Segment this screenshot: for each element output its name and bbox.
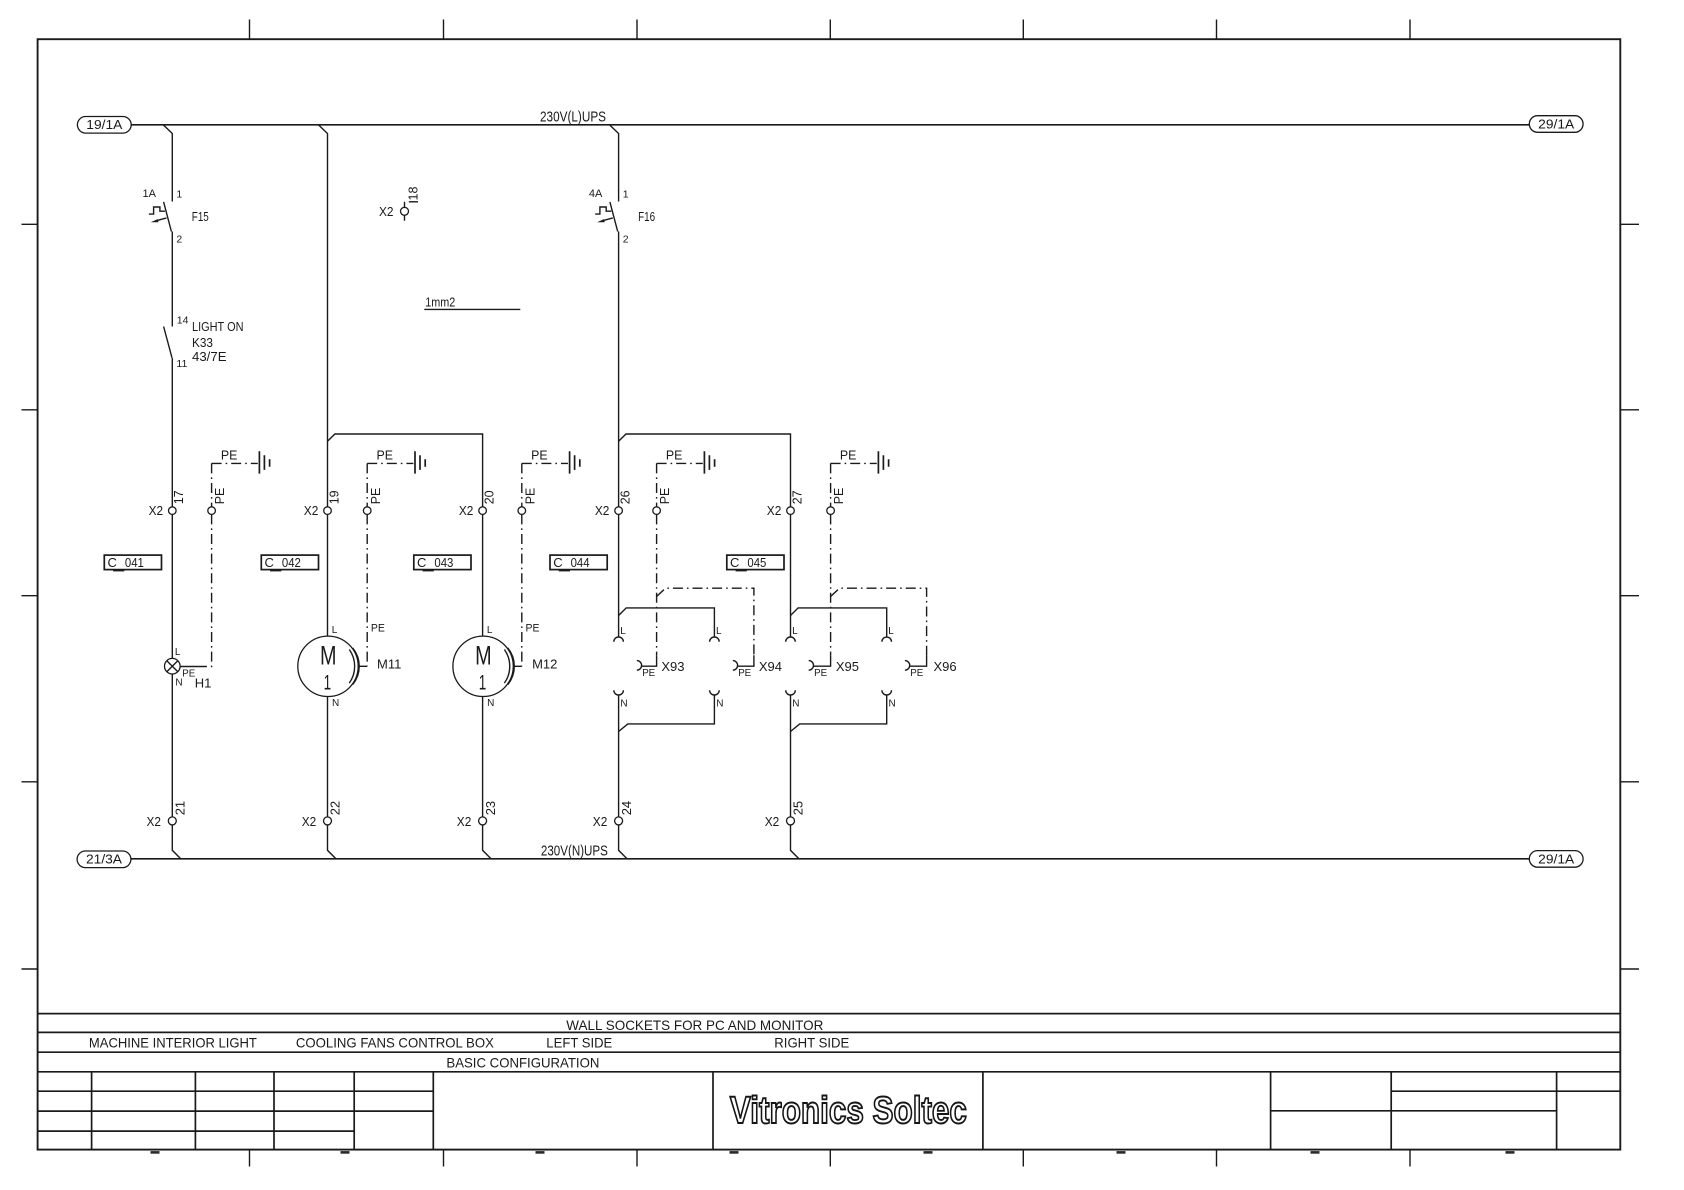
wire PE4 dash-dot to X93 PE bbox=[656, 514, 658, 655]
wire X2:25 to N bus bbox=[791, 825, 799, 859]
svg-text:M: M bbox=[475, 640, 492, 670]
svg-text:L: L bbox=[792, 626, 798, 637]
svg-text:C: C bbox=[417, 555, 426, 570]
svg-text:22: 22 bbox=[328, 801, 343, 815]
svg-text:2: 2 bbox=[176, 234, 182, 246]
wire link branch4 to branch5 bbox=[619, 434, 791, 507]
wire X93 N to X2:24 bbox=[618, 695, 620, 817]
svg-text:PE: PE bbox=[369, 488, 383, 505]
svg-text:L: L bbox=[487, 625, 493, 636]
terminal X2:21 bbox=[168, 817, 176, 825]
svg-text:X2: X2 bbox=[767, 503, 782, 518]
terminal X2:PE on dash line x=521.8 bbox=[518, 507, 526, 515]
terminal X2:20 (fan M12) bbox=[479, 507, 487, 515]
ground symbol PE4 bbox=[704, 451, 714, 473]
svg-text:N: N bbox=[716, 698, 723, 709]
svg-text:21: 21 bbox=[173, 801, 188, 815]
svg-text:17: 17 bbox=[172, 490, 186, 504]
svg-text:C: C bbox=[553, 555, 562, 570]
svg-text:18: 18 bbox=[407, 187, 421, 201]
wire X94 N join bbox=[619, 695, 715, 732]
wire PE2 stub to M11 bbox=[359, 665, 368, 667]
motor M11 bbox=[298, 636, 358, 696]
cable label C_045 bbox=[727, 555, 784, 570]
wire PE3 dash-dot to ground bbox=[522, 462, 568, 464]
svg-text:X2: X2 bbox=[765, 814, 780, 829]
wire link branch2 to branch3 bbox=[328, 434, 483, 507]
svg-text:041: 041 bbox=[125, 555, 144, 570]
wire X2:17 to H1 bbox=[171, 514, 173, 658]
svg-text:23: 23 bbox=[483, 801, 498, 815]
svg-text:19/1A: 19/1A bbox=[86, 118, 123, 132]
svg-text:29/1A: 29/1A bbox=[1538, 117, 1575, 131]
svg-text:X2: X2 bbox=[149, 503, 164, 518]
ground symbol PE3 bbox=[570, 451, 580, 473]
svg-text:1: 1 bbox=[324, 671, 332, 694]
circuit breaker F16 (4A) bbox=[610, 202, 618, 232]
wire PE3 dash-dot vertical upper bbox=[521, 463, 523, 506]
svg-text:PE: PE bbox=[840, 448, 857, 462]
wire PE3 dash-dot vertical lower bbox=[521, 514, 523, 666]
svg-text:X2: X2 bbox=[304, 503, 319, 518]
svg-text:21/3A: 21/3A bbox=[86, 853, 123, 867]
wire X2:26 to X93 L bbox=[618, 514, 620, 636]
title block right cells bbox=[1271, 1072, 1557, 1150]
svg-text:X2: X2 bbox=[457, 814, 472, 829]
svg-text:4A: 4A bbox=[589, 188, 603, 200]
svg-text:L: L bbox=[888, 626, 894, 637]
svg-text:PE: PE bbox=[182, 667, 195, 679]
cable label C_041 bbox=[104, 555, 161, 570]
svg-text:X93: X93 bbox=[661, 659, 684, 674]
svg-text:X2: X2 bbox=[379, 204, 394, 219]
svg-text:PE: PE bbox=[666, 448, 683, 462]
wire PE1 stub to H1 bbox=[180, 666, 198, 668]
switch contact K33 LIGHT ON bbox=[164, 327, 172, 358]
svg-text:PE: PE bbox=[814, 667, 827, 679]
wire X94 PE connector bbox=[738, 655, 754, 666]
svg-text:PE: PE bbox=[377, 448, 394, 462]
wire X96 N join bbox=[791, 695, 887, 732]
socket X94 bbox=[710, 637, 720, 642]
wire M12 to X2:23 bbox=[482, 697, 484, 817]
wire PE3 stub to M12 bbox=[514, 665, 522, 667]
wire PE4 dash-dot branch to X94 PE bbox=[657, 588, 754, 655]
svg-text:43/7E: 43/7E bbox=[192, 350, 227, 364]
motor M12 bbox=[453, 636, 513, 696]
svg-text:N: N bbox=[487, 698, 494, 709]
svg-text:PE: PE bbox=[523, 488, 537, 505]
svg-text:PE: PE bbox=[658, 488, 672, 505]
ground symbol PE2 bbox=[415, 451, 425, 473]
svg-text:X96: X96 bbox=[934, 659, 957, 674]
wire L bus to F16 bbox=[610, 125, 619, 202]
svg-text:1A: 1A bbox=[143, 188, 157, 200]
svg-text:F15: F15 bbox=[192, 210, 209, 224]
svg-text:L: L bbox=[716, 626, 722, 637]
terminal X2:22 bbox=[324, 817, 332, 825]
svg-text:X2: X2 bbox=[147, 814, 162, 829]
title block left table bbox=[92, 1072, 434, 1150]
svg-text:N: N bbox=[175, 678, 182, 689]
terminal X2:PE on dash line x=656.6 bbox=[653, 507, 661, 515]
wire L bus to X2:19 bbox=[318, 125, 327, 507]
svg-text:230V(L)UPS: 230V(L)UPS bbox=[540, 109, 606, 125]
wire K33 to X2:17 bbox=[171, 358, 173, 507]
wire X95 N to X2:25 bbox=[790, 695, 792, 817]
left edge ticks bbox=[22, 224, 38, 969]
svg-text:PE: PE bbox=[642, 667, 655, 679]
svg-text:045: 045 bbox=[747, 555, 766, 570]
svg-text:C: C bbox=[108, 555, 117, 570]
top edge ticks bbox=[250, 20, 1411, 40]
node 29/1A top right bbox=[1529, 116, 1583, 133]
svg-text:X2: X2 bbox=[302, 814, 317, 829]
node 29/1A bottom right bbox=[1529, 851, 1583, 868]
svg-text:C: C bbox=[265, 555, 274, 570]
terminal X2:24 bbox=[615, 817, 623, 825]
wire fork to X94 L bbox=[619, 608, 715, 637]
svg-text:1: 1 bbox=[176, 189, 182, 201]
wire X96 PE connector bbox=[910, 655, 927, 666]
svg-text:N: N bbox=[792, 698, 799, 709]
wire M11 to X2:22 bbox=[327, 697, 329, 817]
wire PE5 dash-dot to X95 PE bbox=[830, 514, 832, 655]
wire X2:23 to N bus bbox=[483, 825, 491, 859]
wire PE2 dash-dot vertical upper bbox=[366, 463, 368, 506]
svg-text:PE: PE bbox=[910, 667, 923, 679]
wire PE5 dash-dot to ground bbox=[831, 462, 877, 464]
circuit breaker F15 (1A) bbox=[164, 202, 172, 232]
svg-text:C: C bbox=[730, 555, 739, 570]
svg-text:WALL SOCKETS FOR PC AND MONITO: WALL SOCKETS FOR PC AND MONITOR bbox=[566, 1017, 823, 1033]
cable label C_044 bbox=[550, 555, 607, 570]
wire F16 to X2:26 bbox=[618, 232, 620, 507]
svg-text:26: 26 bbox=[618, 490, 632, 504]
svg-text:N: N bbox=[889, 698, 896, 709]
wire fork to X96 L bbox=[791, 608, 887, 637]
wire PE2 dash-dot to ground bbox=[367, 462, 413, 464]
wire X2:21 to N bus bbox=[172, 825, 180, 859]
svg-text:X94: X94 bbox=[759, 659, 782, 674]
socket X96 bbox=[882, 637, 892, 642]
svg-text:L: L bbox=[620, 626, 626, 637]
wire X2:27 to X95 L bbox=[790, 514, 792, 636]
terminal X2:19 (fan M11) bbox=[324, 507, 332, 515]
wire PE2 dash-dot vertical lower bbox=[366, 514, 368, 666]
svg-text:043: 043 bbox=[434, 555, 453, 570]
svg-text:1: 1 bbox=[479, 671, 487, 694]
wire 230V(N)UPS bottom bus bbox=[131, 858, 1529, 860]
svg-text:2: 2 bbox=[623, 234, 629, 246]
wire X2:22 to N bus bbox=[328, 825, 336, 859]
terminal X2:26 (sockets left) bbox=[615, 507, 623, 515]
svg-text:M12: M12 bbox=[532, 657, 557, 672]
ground symbol PE1 bbox=[259, 451, 269, 473]
cable label C_043 bbox=[414, 555, 471, 570]
svg-text:Vitronics Soltec: Vitronics Soltec bbox=[730, 1090, 967, 1132]
bottom edge ticks bbox=[250, 1150, 1411, 1167]
svg-text:BASIC CONFIGURATION: BASIC CONFIGURATION bbox=[446, 1055, 599, 1071]
wire PE1 dash-dot vertical upper bbox=[211, 463, 213, 506]
svg-text:PE: PE bbox=[738, 667, 751, 679]
svg-text:PE: PE bbox=[526, 622, 540, 634]
terminal X2:17 (lamp circuit) bbox=[169, 507, 177, 515]
terminal X2:25 bbox=[787, 817, 795, 825]
wire X2:19 to M11 bbox=[327, 514, 329, 636]
title block logo box bbox=[713, 1072, 983, 1150]
svg-text:RIGHT SIDE: RIGHT SIDE bbox=[774, 1035, 849, 1051]
svg-text:1: 1 bbox=[623, 189, 629, 201]
svg-text:044: 044 bbox=[571, 555, 590, 570]
node 21/3A bbox=[77, 851, 131, 868]
cable label C_042 bbox=[261, 555, 318, 570]
wire H1 to X2:21 bbox=[171, 674, 173, 817]
wire F15 to K33 bbox=[171, 232, 173, 327]
svg-text:X2: X2 bbox=[593, 814, 608, 829]
svg-text:N: N bbox=[620, 698, 627, 709]
wire X93 PE connector bbox=[642, 655, 657, 666]
svg-text:27: 27 bbox=[790, 490, 804, 504]
svg-text:20: 20 bbox=[482, 490, 496, 504]
terminal X2:PE on dash line x=367.2 bbox=[363, 507, 371, 515]
svg-text:042: 042 bbox=[282, 555, 301, 570]
wire X95 PE connector bbox=[814, 655, 831, 666]
node 19/1A bbox=[77, 117, 131, 134]
svg-text:PE: PE bbox=[221, 448, 238, 462]
right edge ticks bbox=[1620, 224, 1639, 969]
svg-text:N: N bbox=[332, 698, 339, 709]
svg-text:X95: X95 bbox=[836, 659, 859, 674]
socket X95 bbox=[786, 637, 796, 642]
svg-text:1mm2: 1mm2 bbox=[425, 295, 455, 309]
svg-text:11: 11 bbox=[176, 358, 187, 370]
wire 230V(L)UPS top bus bbox=[131, 124, 1529, 126]
svg-text:K33: K33 bbox=[192, 336, 213, 350]
svg-text:PE: PE bbox=[213, 488, 227, 505]
svg-text:19: 19 bbox=[327, 490, 341, 504]
ground symbol PE5 bbox=[878, 451, 888, 473]
title block strip lines bbox=[38, 1014, 1621, 1072]
wire X2:24 to N bus bbox=[619, 825, 627, 859]
wire PE1 dash-dot to ground bbox=[212, 462, 258, 464]
terminal X2:27 (sockets right) bbox=[787, 507, 795, 515]
svg-text:F16: F16 bbox=[638, 210, 655, 224]
wire PE5 dash-dot branch to X96 PE bbox=[831, 588, 927, 655]
wire PE4 dash-dot vertical upper bbox=[656, 463, 658, 506]
svg-text:COOLING FANS CONTROL BOX: COOLING FANS CONTROL BOX bbox=[296, 1035, 495, 1051]
svg-text:LIGHT ON: LIGHT ON bbox=[192, 320, 244, 334]
svg-text:29/1A: 29/1A bbox=[1538, 852, 1575, 866]
svg-text:PE: PE bbox=[371, 622, 385, 634]
svg-text:X2: X2 bbox=[595, 503, 610, 518]
terminal X2:23 bbox=[479, 817, 487, 825]
svg-text:M11: M11 bbox=[377, 657, 401, 672]
terminal X2:18 spare bbox=[404, 202, 406, 221]
svg-text:14: 14 bbox=[177, 314, 189, 326]
svg-text:H1: H1 bbox=[195, 676, 212, 691]
wire L bus to F15 bbox=[163, 125, 172, 202]
svg-text:X2: X2 bbox=[459, 503, 474, 518]
svg-text:L: L bbox=[332, 625, 338, 636]
wire PE4 dash-dot to ground bbox=[657, 462, 703, 464]
terminal X2:PE on dash line x=830.6 bbox=[827, 507, 835, 515]
svg-text:25: 25 bbox=[791, 801, 806, 815]
lamp H1 bbox=[165, 658, 181, 674]
wire X2:20 to M12 bbox=[482, 514, 484, 636]
socket X93 bbox=[614, 637, 624, 642]
svg-text:MACHINE INTERIOR LIGHT: MACHINE INTERIOR LIGHT bbox=[89, 1035, 257, 1051]
svg-text:24: 24 bbox=[619, 801, 634, 815]
svg-text:LEFT SIDE: LEFT SIDE bbox=[546, 1035, 612, 1051]
svg-text:M: M bbox=[320, 640, 337, 670]
bottom edge clipped column digits bbox=[151, 1151, 160, 1154]
wire PE5 dash-dot vertical upper bbox=[830, 463, 832, 506]
svg-text:PE: PE bbox=[531, 448, 548, 462]
wire PE1 dash-dot vertical lower bbox=[198, 514, 211, 666]
svg-text:L: L bbox=[175, 647, 181, 658]
svg-text:230V(N)UPS: 230V(N)UPS bbox=[541, 843, 608, 859]
terminal X2:PE on dash line x=211.6 bbox=[208, 507, 216, 515]
svg-text:PE: PE bbox=[832, 488, 846, 505]
